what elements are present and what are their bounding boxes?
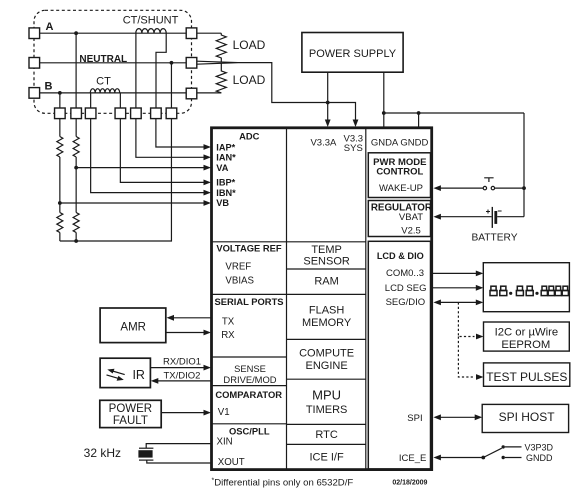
svg-text:FLASH: FLASH: [309, 305, 345, 317]
terminal 7 bottom (neutral ref): [166, 108, 177, 119]
divider COMPUTE / MPU: [287, 378, 366, 380]
crystal Y1 body: [138, 450, 152, 457]
wire: divider common return to neutral terminal 7: [60, 119, 172, 241]
wire: battery to ground rail: [497, 216, 524, 218]
wire: TX to AMR: [173, 317, 212, 319]
IR emitter/receiver arrows: [113, 371, 125, 375]
svg-text:FAULT: FAULT: [113, 415, 148, 427]
svg-text:CONTROL: CONTROL: [376, 167, 423, 178]
terminal 2 bottom (A sense): [71, 108, 82, 119]
wire: ground rail down right side: [523, 113, 525, 217]
LCD decimal points: [509, 292, 512, 295]
svg-text:B: B: [45, 81, 53, 93]
divider COMPARATOR / OSC-PLL: [212, 423, 287, 425]
wire: phase B tap down to terminal: [59, 93, 61, 108]
chip column divider 1: [286, 128, 288, 470]
svg-text:ICE I/F: ICE I/F: [309, 451, 344, 463]
wire: contact to GNDD: [505, 457, 522, 459]
svg-text:COM0..3: COM0..3: [386, 268, 424, 279]
wire: CT secondary left lead: [90, 93, 92, 108]
svg-text:GNDD: GNDD: [526, 453, 553, 463]
svg-text:V1: V1: [218, 407, 230, 418]
svg-text:TEST PULSES: TEST PULSES: [486, 370, 567, 384]
svg-text:02/18/2009: 02/18/2009: [392, 480, 427, 487]
wire: SEG/DIO to LCD (bidirectional): [439, 301, 477, 303]
svg-text:TEMP: TEMP: [311, 244, 342, 256]
divider FLASH / COMPUTE: [287, 338, 366, 340]
junction on phase B: [58, 91, 62, 95]
svg-text:SERIAL PORTS: SERIAL PORTS: [214, 296, 283, 307]
wire: IAN* from terminal 5 to chip: [136, 119, 204, 158]
svg-text:SYS: SYS: [344, 143, 363, 154]
wire: dashed branch to TEST PULSES: [458, 337, 474, 378]
resistor LOAD (upper): [216, 33, 226, 61]
chip column divider 2: [365, 128, 367, 470]
svg-text:SPI: SPI: [407, 413, 422, 424]
junction on phase A: [74, 31, 78, 35]
svg-text:SPI HOST: SPI HOST: [499, 410, 556, 424]
TEST PULSES box: [484, 363, 570, 386]
svg-text:TX: TX: [222, 316, 235, 327]
svg-text:32 kHz: 32 kHz: [84, 446, 121, 460]
crystal Y1 bottom plate: [139, 459, 153, 461]
CT/SHUNT transformer coil on phase A: [136, 29, 166, 34]
svg-text:LCD & DIO: LCD & DIO: [377, 251, 424, 261]
wire: ground rail to the right: [384, 112, 524, 114]
PWR MODE CONTROL sub-box: [368, 153, 430, 198]
pushbutton SW1 contacts: [483, 186, 486, 189]
terminal A left: [29, 28, 40, 39]
wire: chip TX/DIO2 to IR: [157, 380, 212, 382]
divider VOLTAGE REF / SERIAL PORTS: [212, 293, 287, 295]
wire: CT/SHUNT secondary left lead: [135, 33, 137, 108]
wire: GNDD stub: [418, 113, 420, 127]
svg-text:VBIAS: VBIAS: [225, 276, 254, 287]
POWER FAULT box: [100, 400, 161, 427]
battery BT1 positive plate: [491, 207, 493, 228]
svg-text:RAM: RAM: [314, 276, 338, 288]
junction on NEUTRAL: [170, 61, 174, 65]
svg-text:EEPROM: EEPROM: [501, 339, 550, 351]
svg-text:MEMORY: MEMORY: [302, 317, 352, 329]
wire: ICE_E to selector switch: [439, 457, 483, 459]
wire: ground from power supply (GNDA stub): [383, 72, 385, 127]
wire: load bottom to phase B terminal: [197, 92, 222, 94]
junction ground rail at GNDD: [417, 111, 421, 115]
svg-text:TIMERS: TIMERS: [306, 404, 348, 416]
junction divider common: [74, 239, 78, 243]
junction VA tap: [74, 166, 78, 170]
svg-text:SENSOR: SENSOR: [303, 256, 350, 268]
wire: dashed SEG/DIO branch down: [458, 302, 474, 336]
svg-text:TX/DIO2: TX/DIO2: [164, 370, 201, 381]
wire: POWER FAULT to V1: [161, 412, 204, 414]
divider RTC / ICE: [287, 443, 366, 445]
svg-text:VBAT: VBAT: [399, 212, 423, 223]
svg-text:LCD SEG: LCD SEG: [385, 283, 427, 294]
svg-text:RX: RX: [221, 330, 235, 341]
wire: IBP* from terminal 4 to chip: [120, 119, 204, 183]
svg-text:POWER SUPPLY: POWER SUPPLY: [309, 48, 397, 60]
LCD 7-segment digits: [490, 286, 568, 295]
wire: VB from divider tap to chip: [60, 202, 204, 204]
IR box: [100, 358, 150, 387]
svg-text:LOAD: LOAD: [233, 38, 266, 52]
divider MPU / RTC: [287, 423, 366, 425]
wire: COM0..3 to LCD: [433, 272, 477, 274]
svg-text:IBN*: IBN*: [216, 188, 236, 198]
svg-text:NEUTRAL: NEUTRAL: [79, 54, 127, 65]
svg-text:I2C or µWire: I2C or µWire: [495, 326, 559, 338]
terminal B left: [29, 88, 40, 99]
resistor R2 (A divider top): [73, 137, 79, 158]
svg-text:V2.5: V2.5: [401, 225, 421, 236]
wire: phase A tap down to terminal: [75, 33, 77, 108]
wire: phase B line: [39, 92, 186, 94]
svg-text:BATTERY: BATTERY: [471, 233, 517, 244]
svg-text:*Differential pins only on 653: *Differential pins only on 6532D/F: [212, 478, 354, 489]
terminal 4 bottom (IBP): [115, 108, 126, 119]
svg-text:POWER: POWER: [109, 403, 152, 415]
svg-text:VOLTAGE REF: VOLTAGE REF: [216, 243, 282, 254]
wire: AMR to RX: [167, 332, 205, 334]
switch SW2 contact V3P3D: [502, 445, 505, 448]
svg-text:ICE_E: ICE_E: [399, 453, 426, 464]
wire: VBAT to battery: [439, 216, 492, 218]
meter terminal block dashed outline: [34, 10, 192, 113]
terminal 3 bottom (IBN): [85, 108, 96, 119]
resistor R4 (A divider bottom): [73, 213, 79, 233]
svg-text:COMPARATOR: COMPARATOR: [215, 389, 282, 400]
svg-text:IR: IR: [132, 368, 145, 382]
wire: IR RX/DIO1 to chip: [150, 367, 204, 369]
CT transformer coil on phase B: [90, 89, 119, 93]
SPI HOST box: [482, 404, 568, 432]
svg-text:SEG/DIO: SEG/DIO: [386, 297, 426, 308]
LCD & DIO sub-box: [368, 241, 430, 469]
junction ground rail at GNDA: [382, 111, 386, 115]
svg-text:COMPUTE: COMPUTE: [299, 347, 354, 359]
AMR box: [100, 308, 166, 343]
wire: IBN* from terminal 3 to chip: [91, 119, 204, 193]
wire: from terminal 2 down: [75, 119, 77, 137]
wire: VA from divider tap to chip: [76, 167, 204, 169]
battery BT1 negative plate: [494, 211, 497, 224]
divider ADC / VOLTAGE REF: [212, 241, 287, 243]
switch SW2 lever: [483, 448, 502, 457]
svg-text:GNDA GNDD: GNDA GNDD: [371, 137, 429, 148]
junction V3.3A / neutral feed: [326, 101, 330, 105]
wire: neutral to V3.3 supplies: [238, 63, 356, 120]
svg-text:ENGINE: ENGINE: [306, 360, 348, 372]
wire: CT secondary right lead: [119, 93, 121, 108]
svg-text:DRIVE/MOD: DRIVE/MOD: [223, 374, 276, 385]
resistor R3 (B divider bottom): [57, 213, 63, 233]
wire: IAP* from terminal 6 to chip: [156, 119, 204, 147]
svg-text:A: A: [46, 21, 54, 33]
svg-text:ADC: ADC: [239, 131, 260, 142]
resistor R1 (B divider top): [57, 137, 63, 158]
pushbutton SW1 actuator: [484, 178, 493, 182]
wire: NEUTRAL line: [39, 62, 186, 64]
wire: R4 bottom to common: [75, 233, 77, 242]
wire: CT/SHUNT secondary right lead: [156, 33, 166, 108]
REGULATOR sub-box: [368, 201, 430, 237]
terminal B right: [186, 88, 197, 99]
wire: switch to ground rail: [495, 187, 524, 189]
svg-text:SENSE: SENSE: [234, 363, 266, 374]
svg-text:VB: VB: [216, 198, 229, 208]
svg-text:CT/SHUNT: CT/SHUNT: [123, 15, 179, 27]
battery minus sign: [498, 210, 502, 212]
switch SW2 contact GNDD: [502, 456, 505, 459]
svg-text:IAP*: IAP*: [216, 142, 235, 152]
svg-text:XIN: XIN: [217, 437, 233, 448]
junction VB tap: [58, 201, 62, 205]
resistor LOAD (lower): [216, 63, 226, 93]
svg-text:XOUT: XOUT: [218, 457, 245, 468]
svg-text:OSC/PLL: OSC/PLL: [229, 426, 270, 437]
battery plus sign: [486, 210, 490, 214]
terminal 5 bottom (IAN): [131, 108, 142, 119]
wire: R2 to R4 with VA tap: [75, 157, 77, 213]
junction ICE_E lever pivot: [481, 456, 485, 460]
divider TEMP SENSOR / RAM: [287, 268, 366, 270]
wire: SPI to SPI HOST (bidirectional): [439, 416, 476, 418]
wire: LCD SEG to LCD: [433, 287, 477, 289]
power supply box: [302, 33, 403, 73]
divider RAM / FLASH: [287, 293, 366, 295]
svg-text:CT: CT: [96, 76, 111, 88]
wire: R1 to R3 with VB tap: [59, 157, 61, 213]
wire: V3.3A from power supply to chip: [327, 72, 329, 120]
svg-text:LOAD: LOAD: [233, 73, 266, 87]
EEPROM box: [484, 322, 570, 351]
LCD display box: [483, 263, 569, 312]
terminal NEUTRAL left: [29, 58, 40, 69]
wire: neutral tap down to terminal: [170, 63, 172, 108]
svg-text:RX/DIO1: RX/DIO1: [163, 357, 201, 368]
svg-text:VREF: VREF: [225, 262, 251, 273]
svg-text:IBP*: IBP*: [216, 178, 235, 188]
wire: contact to V3P3D: [505, 446, 522, 448]
svg-text:RTC: RTC: [315, 429, 337, 441]
svg-text:AMR: AMR: [120, 322, 146, 334]
divider SENSE / COMPARATOR: [212, 385, 287, 387]
wire: wake-up switch to WAKE-UP pin: [439, 187, 483, 189]
wire: XIN to crystal: [146, 444, 211, 449]
wire: from terminal 1 down: [59, 119, 61, 137]
divider SERIAL PORTS / SENSE: [212, 356, 287, 358]
wire: phase A line: [39, 32, 186, 34]
svg-text:MPU: MPU: [312, 387, 341, 402]
divider top / TEMP SENSOR: [287, 241, 366, 243]
op chip 71M6532 outline: [212, 128, 432, 470]
wire: R3 bottom to common: [59, 233, 61, 242]
terminal NEUTRAL right: [186, 58, 197, 69]
terminal 1 bottom (B sense): [55, 108, 66, 119]
crystal Y1 32kHz top plate: [139, 447, 153, 449]
wire: neutral terminal double lead converging: [197, 61, 238, 64]
svg-text:IAN*: IAN*: [216, 153, 236, 163]
svg-text:V3.3A: V3.3A: [310, 137, 337, 148]
terminal A right: [186, 28, 197, 39]
junction switch/ground rail: [522, 186, 526, 190]
wire: phase A to load: [197, 32, 222, 34]
svg-text:VA: VA: [216, 163, 228, 173]
svg-text:WAKE-UP: WAKE-UP: [379, 183, 423, 194]
wire: crystal to XOUT: [147, 460, 212, 463]
terminal 6 bottom (IAP): [151, 108, 162, 119]
svg-text:V3P3D: V3P3D: [525, 442, 554, 452]
